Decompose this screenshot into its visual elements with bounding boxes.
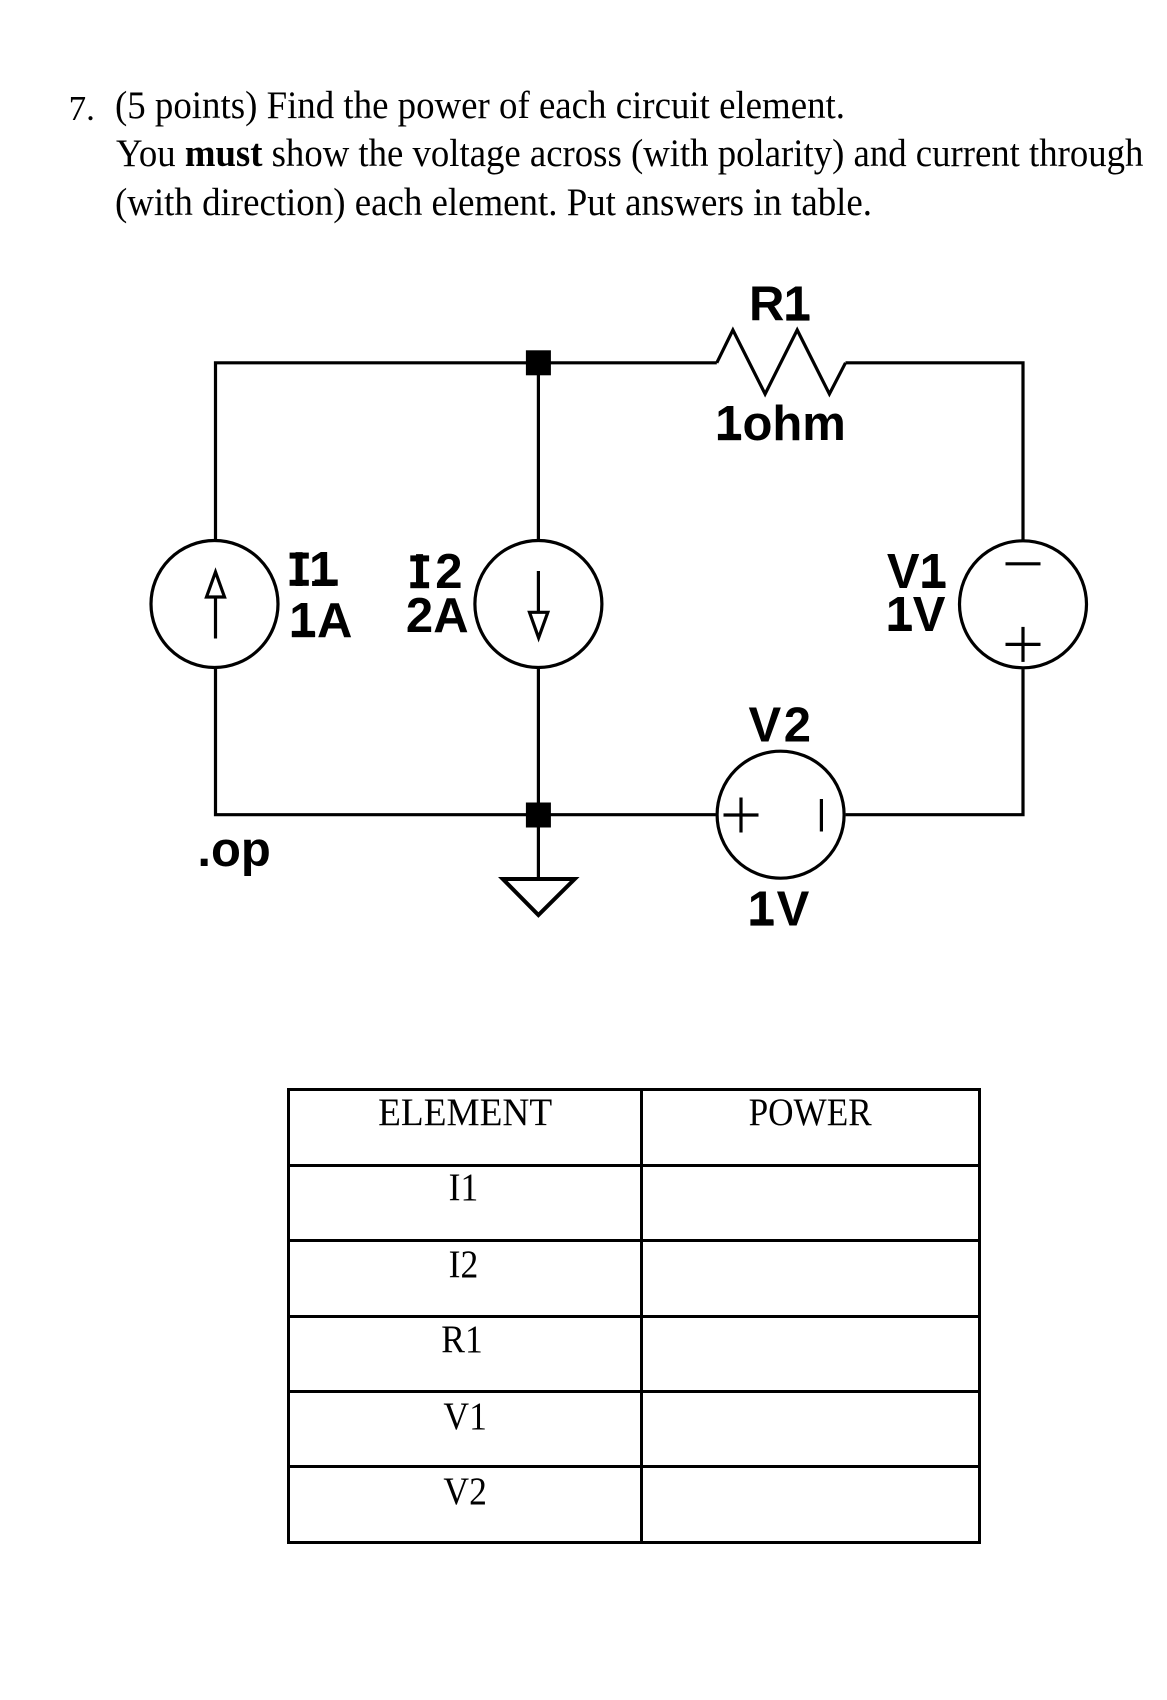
voltage source V1 bbox=[960, 541, 1087, 668]
voltage source V2 bbox=[717, 751, 844, 878]
svg-text:.op: .op bbox=[197, 823, 270, 877]
answer table bbox=[287, 1088, 981, 1544]
svg-text:1ohm: 1ohm bbox=[715, 397, 846, 451]
label V2 bbox=[749, 698, 812, 752]
label 2A bbox=[406, 589, 469, 643]
wire left bottom bbox=[216, 669, 716, 815]
svg-text:1V: 1V bbox=[748, 883, 810, 937]
wire top left bbox=[216, 363, 717, 540]
wire I2 top bbox=[537, 363, 540, 540]
label 1ohm bbox=[715, 397, 846, 451]
wire ground stub bbox=[537, 815, 540, 879]
label 1A bbox=[289, 594, 352, 648]
label V1 bbox=[887, 545, 947, 599]
wire top right bbox=[846, 363, 1024, 540]
wire V1 bottom to V2 bbox=[846, 669, 1023, 815]
node 0 junction bottom bbox=[526, 803, 551, 828]
label I1 bbox=[290, 543, 338, 597]
ground bbox=[503, 879, 575, 915]
current source I2 bbox=[475, 541, 602, 668]
label R1 bbox=[749, 278, 811, 332]
label I2 bbox=[410, 545, 462, 599]
svg-text:R1: R1 bbox=[749, 278, 811, 332]
svg-text:I1: I1 bbox=[292, 543, 336, 597]
svg-text:V2: V2 bbox=[749, 698, 812, 752]
svg-text:1V: 1V bbox=[886, 588, 946, 642]
wire I2 bottom bbox=[537, 668, 540, 814]
node N001 junction top bbox=[526, 350, 551, 375]
directive .op bbox=[197, 823, 270, 877]
label 1V bbox=[886, 588, 946, 642]
resistor R1 bbox=[717, 330, 846, 394]
svg-text:2A: 2A bbox=[406, 589, 469, 643]
problem text bbox=[69, 91, 95, 126]
svg-text:1A: 1A bbox=[289, 594, 352, 648]
current source I1 bbox=[151, 541, 278, 668]
label 1V of V2 bbox=[748, 883, 810, 937]
